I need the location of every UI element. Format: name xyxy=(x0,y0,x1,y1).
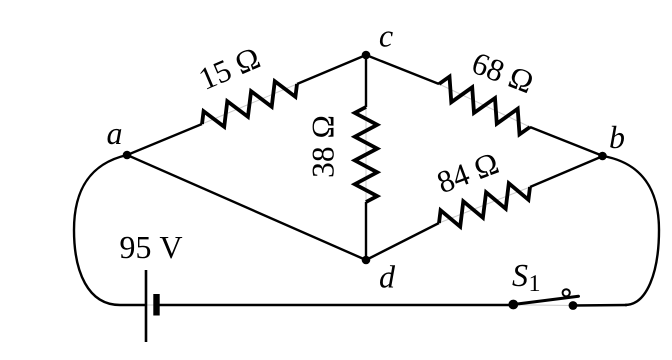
node d dot xyxy=(362,256,371,265)
faint construction line under resistor R4 xyxy=(439,187,530,223)
faint construction line under resistor R3 xyxy=(365,107,367,202)
wire a to d xyxy=(127,155,366,260)
battery B1 short thick plate xyxy=(153,294,159,316)
wire R1 to c xyxy=(297,55,366,84)
wire right curve bottom rail to b xyxy=(603,156,659,305)
label node d xyxy=(380,265,395,288)
label S1 xyxy=(512,265,539,291)
battery B1 long plate xyxy=(145,270,148,342)
node b dot xyxy=(598,152,607,161)
wire bottom rail battery to switch xyxy=(159,304,513,306)
faint construction line under battery xyxy=(146,304,162,306)
resistor R4 zigzag (84 ohm) xyxy=(439,183,530,226)
faint construction line under resistor R1 xyxy=(202,84,297,124)
wire R4 to b xyxy=(530,156,603,187)
wire c to R2 xyxy=(366,55,439,84)
wire d to R4 xyxy=(366,223,439,260)
faint construction line under switch S1 xyxy=(513,304,573,307)
wire R3 to d xyxy=(365,202,367,260)
switch S1 left contact dot xyxy=(508,300,518,310)
switch S1 right contact dot xyxy=(569,301,578,310)
label 95 V xyxy=(121,237,183,259)
switch S1 lever xyxy=(513,296,578,304)
resistor R2 zigzag (68 ohm) xyxy=(439,77,530,135)
wire a to R1 xyxy=(127,124,202,155)
resistor R1 zigzag (15 ohm) xyxy=(202,81,297,127)
label 84 ohm xyxy=(436,152,500,193)
wire bottom rail switch to right curve xyxy=(573,304,627,307)
node a dot xyxy=(123,151,132,160)
switch S1 open terminal circle xyxy=(563,289,570,296)
node c dot xyxy=(362,51,371,60)
label node b xyxy=(610,126,624,149)
faint construction line under resistor R2 xyxy=(439,84,530,127)
wire left curve a to bottom rail xyxy=(74,155,145,305)
wire R2 to b xyxy=(530,127,603,156)
label 38 ohm xyxy=(313,117,334,177)
label 68 ohm xyxy=(471,52,534,93)
resistor R3 zigzag (38 ohm) xyxy=(355,107,377,202)
label node a xyxy=(108,129,122,144)
label node c xyxy=(380,31,393,46)
wire c to R3 xyxy=(365,55,367,107)
label 15 ohm xyxy=(199,47,261,89)
